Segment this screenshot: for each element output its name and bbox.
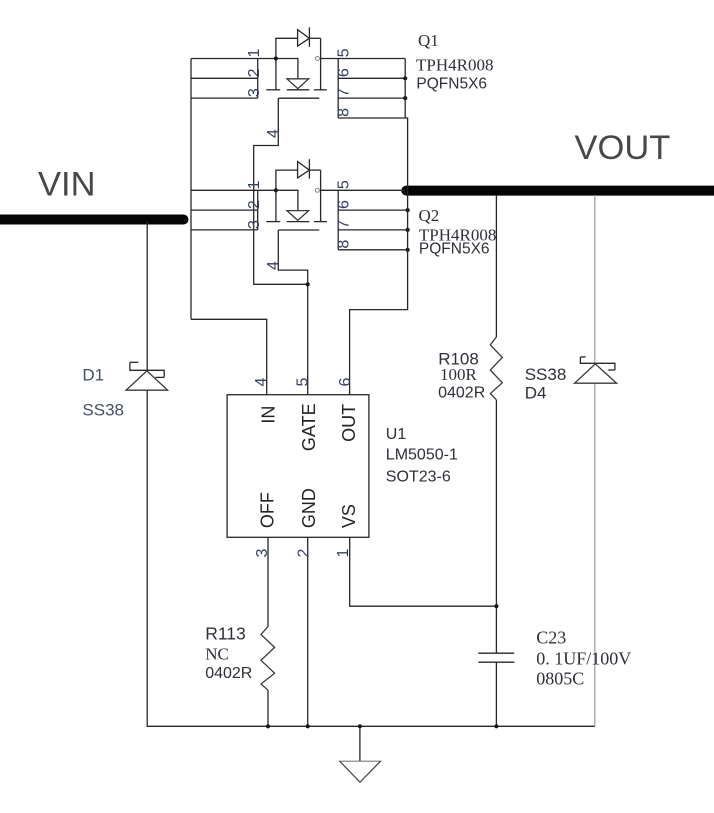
svg-text:0. 1UF/100V: 0. 1UF/100V bbox=[536, 648, 631, 668]
wire U1 VS pin to C23 top bbox=[350, 537, 497, 606]
pin number digits bbox=[246, 48, 353, 270]
Q1 source wire to body node bbox=[258, 59, 298, 79]
wire VIN left vertical bus bbox=[190, 59, 192, 320]
svg-text:GATE: GATE bbox=[299, 403, 319, 451]
Q1 pin 8 wire bbox=[338, 117, 405, 119]
D4 top gray wire from VOUT bbox=[594, 195, 596, 363]
svg-text:4: 4 bbox=[265, 129, 282, 138]
transistor Q2 body bbox=[191, 159, 410, 252]
svg-text:2: 2 bbox=[246, 200, 263, 209]
Q1 body diode triangle bbox=[298, 30, 310, 46]
svg-text:3: 3 bbox=[254, 548, 271, 557]
svg-text:IN: IN bbox=[258, 406, 278, 424]
svg-text:2: 2 bbox=[295, 548, 312, 557]
svg-text:0805C: 0805C bbox=[536, 668, 584, 688]
svg-text:3: 3 bbox=[246, 220, 263, 229]
Q1 pin 6 wire bbox=[338, 77, 405, 79]
Q2 drain bus junction dots bbox=[406, 208, 410, 212]
R113 zigzag bbox=[261, 627, 275, 691]
ground symbol bbox=[340, 726, 380, 782]
wire D1 branch from VIN bbox=[146, 221, 148, 370]
svg-text:OUT: OUT bbox=[339, 404, 359, 442]
svg-text:PQFN5X6: PQFN5X6 bbox=[416, 76, 487, 93]
svg-text:SS38: SS38 bbox=[525, 365, 567, 384]
Q1 pin 5 wire bbox=[321, 58, 406, 60]
Q1 drain ladder bbox=[337, 59, 339, 119]
svg-text:C23: C23 bbox=[536, 628, 566, 648]
svg-text:0402R: 0402R bbox=[205, 665, 252, 682]
Q1 pin 1 wire bbox=[191, 58, 258, 60]
svg-text:2: 2 bbox=[246, 68, 263, 77]
Q2 pin 3 wire bbox=[191, 229, 258, 231]
Q2 source ladder bbox=[257, 190, 259, 230]
svg-text:VS: VS bbox=[339, 504, 359, 528]
R113 bottom lead bbox=[267, 690, 269, 726]
R108 zigzag bbox=[490, 337, 502, 400]
Q2 substrate triangle bbox=[287, 211, 309, 221]
Q1 body diode anode wire bbox=[276, 38, 298, 58]
Q1 substrate triangle bbox=[287, 79, 309, 89]
U1 pin numbers bbox=[253, 377, 354, 557]
svg-text:5: 5 bbox=[336, 48, 353, 57]
Q1 gate bar bbox=[278, 97, 319, 99]
R108 bottom lead bbox=[495, 400, 497, 653]
IC U1 box bbox=[227, 395, 369, 538]
wire U1 OFF pin to R113 bbox=[267, 537, 269, 626]
svg-text:100R: 100R bbox=[440, 365, 478, 384]
svg-text:4: 4 bbox=[265, 261, 282, 270]
R108 top lead from VOUT bbox=[495, 195, 497, 337]
svg-text:VOUT: VOUT bbox=[575, 129, 671, 167]
C23 bottom lead bbox=[495, 662, 497, 726]
capacitor C23 bbox=[478, 653, 514, 726]
C23 bottom plate bbox=[478, 661, 514, 663]
svg-text:Q1: Q1 bbox=[418, 31, 439, 50]
svg-text:OFF: OFF bbox=[258, 492, 278, 528]
Q2 pin 8 wire bbox=[338, 249, 407, 251]
net VIN thick bus bbox=[0, 215, 184, 225]
Q1 source ladder bbox=[257, 59, 259, 99]
junction dot VS/C23 bbox=[494, 604, 498, 608]
svg-text:8: 8 bbox=[336, 240, 353, 249]
svg-text:4: 4 bbox=[253, 377, 270, 386]
svg-text:5: 5 bbox=[295, 377, 312, 386]
svg-text:8: 8 bbox=[336, 108, 353, 117]
Q1 channel dashes bbox=[266, 89, 280, 91]
Q1 body diode cathode bar bbox=[308, 27, 310, 46]
wire VIN to U1 IN pin bbox=[191, 319, 267, 394]
Q2 channel dashes bbox=[266, 221, 280, 223]
svg-text:R113: R113 bbox=[205, 624, 246, 644]
svg-text:0402R: 0402R bbox=[438, 384, 485, 401]
junction gate net dot bbox=[306, 282, 310, 286]
Q1 pin 3 wire bbox=[191, 97, 258, 99]
svg-text:D4: D4 bbox=[525, 384, 547, 403]
wire Q1 drain bus down to VOUT bbox=[405, 59, 407, 191]
resistor R113 bbox=[261, 627, 275, 727]
Q2 gate bar bbox=[278, 229, 319, 231]
Q2 source vertical bbox=[275, 190, 277, 221]
svg-text:Q2: Q2 bbox=[419, 206, 440, 225]
wire VOUT bus down to U1 OUT bbox=[350, 190, 408, 394]
wire Q1 gate to gate net bbox=[254, 98, 308, 284]
svg-text:D1: D1 bbox=[82, 366, 104, 385]
Q2 body diode triangle bbox=[298, 162, 310, 178]
wire D1 anode to ground bus bbox=[147, 390, 595, 726]
svg-text:6: 6 bbox=[336, 68, 353, 77]
Q2 pin 6 wire bbox=[338, 209, 407, 211]
svg-text:3: 3 bbox=[246, 88, 263, 97]
transistor Q1 body bbox=[191, 27, 407, 118]
Q1 body diode cathode wire bbox=[309, 37, 320, 39]
Q2 source wire to body node bbox=[258, 190, 298, 210]
svg-text:TPH4R008: TPH4R008 bbox=[416, 56, 493, 75]
junction dots on ground bus bbox=[266, 724, 270, 728]
C23 top plate bbox=[478, 652, 514, 654]
Q1 source junction dot bbox=[274, 56, 278, 60]
svg-text:GND: GND bbox=[299, 488, 319, 528]
svg-text:SS38: SS38 bbox=[82, 401, 124, 420]
Q2 pin 5 wire bbox=[321, 189, 406, 191]
svg-text:1: 1 bbox=[246, 49, 263, 58]
svg-text:5: 5 bbox=[336, 180, 353, 189]
diode D4 bbox=[575, 195, 617, 726]
svg-text:LM5050-1: LM5050-1 bbox=[386, 447, 458, 464]
svg-text:SOT23-6: SOT23-6 bbox=[386, 469, 451, 486]
svg-text:1: 1 bbox=[246, 180, 263, 189]
Q2 drain ladder bbox=[337, 190, 339, 250]
wire Q2 gate to gate net bbox=[278, 230, 307, 395]
svg-text:1: 1 bbox=[335, 548, 352, 557]
resistor R108 bbox=[490, 195, 502, 653]
Q1 pin 7 wire bbox=[338, 97, 405, 99]
svg-text:PQFN5X6: PQFN5X6 bbox=[419, 241, 490, 258]
Q1 drain bus junction dots bbox=[403, 76, 407, 80]
svg-text:6: 6 bbox=[337, 377, 354, 386]
Q2 pin 2 wire bbox=[191, 209, 258, 211]
Q1 drain pin circle bbox=[315, 57, 319, 61]
Q2 source junction dot bbox=[274, 188, 278, 192]
svg-text:7: 7 bbox=[336, 88, 353, 97]
Q2 body diode cathode wire bbox=[309, 169, 320, 171]
svg-text:NC: NC bbox=[205, 645, 229, 664]
D4 schottky cathode bar bbox=[580, 357, 615, 370]
D4 bottom gray wire to ground bus bbox=[594, 383, 596, 726]
svg-text:7: 7 bbox=[336, 220, 353, 229]
Q2 body diode cathode bar bbox=[308, 159, 310, 178]
Q2 body diode anode wire bbox=[276, 170, 298, 190]
diode D1 bbox=[126, 362, 168, 390]
svg-text:VIN: VIN bbox=[38, 166, 96, 204]
D1 schottky cathode bar bbox=[130, 362, 164, 377]
D1 triangle bbox=[126, 371, 168, 390]
Q2 drain pin circle bbox=[315, 188, 319, 192]
svg-text:U1: U1 bbox=[386, 426, 407, 443]
Q2 drain vertical bbox=[320, 170, 322, 222]
D4 triangle bbox=[575, 364, 617, 383]
svg-text:6: 6 bbox=[336, 200, 353, 209]
Q1 pin 2 wire bbox=[191, 77, 258, 79]
Q2 pin 7 wire bbox=[338, 229, 407, 231]
Q1 drain vertical bbox=[320, 38, 322, 90]
text labels bbox=[38, 129, 670, 204]
Q2 pin 1 wire bbox=[191, 189, 258, 191]
U1 pin names bbox=[258, 403, 360, 528]
net VOUT thick bus bbox=[406, 186, 714, 196]
wire U1 GND pin to ground bus bbox=[307, 537, 309, 726]
Q1 source vertical bbox=[275, 59, 277, 90]
